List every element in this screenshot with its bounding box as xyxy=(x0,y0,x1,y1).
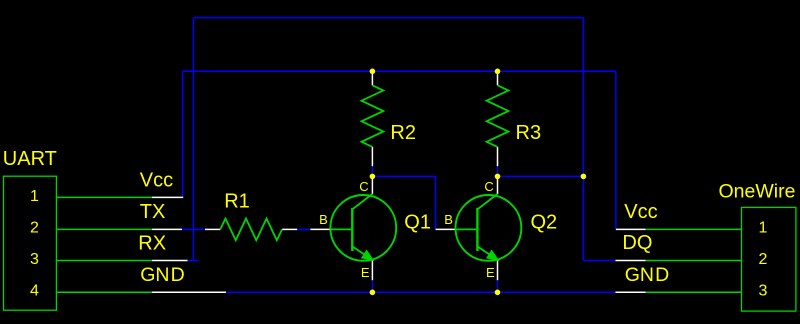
wire: Vcc label segment (white) xyxy=(152,196,183,198)
wire: Q1 collector to Q2 base xyxy=(372,176,435,229)
wire: TX white segment before R1 xyxy=(205,228,220,230)
resistor R1 xyxy=(220,219,282,241)
junction node: R2 top on Vcc rail xyxy=(370,69,376,75)
svg-text:GND: GND xyxy=(140,264,185,286)
svg-text:R3: R3 xyxy=(516,122,542,144)
resistor R3 xyxy=(487,85,509,147)
wire: R2 bottom blue stub xyxy=(371,166,373,176)
wire: Q1 collector pin white xyxy=(371,179,373,194)
wire: R2 bottom lead white xyxy=(371,147,373,166)
wire: RX riser vertical left xyxy=(193,18,195,261)
resistor R2 xyxy=(362,85,384,147)
junction node: Q1 collector / R2 bottom xyxy=(370,174,376,180)
wire: DQ jog to label xyxy=(583,260,615,262)
wire: TX blue segment right xyxy=(297,228,310,230)
svg-text:1: 1 xyxy=(30,188,39,205)
junction node: Q2 emitter on GND rail xyxy=(495,290,501,296)
connector OneWire xyxy=(742,207,796,311)
wire: Q2 emitter pin white xyxy=(497,260,499,280)
svg-text:DQ: DQ xyxy=(622,232,652,254)
transistor Q1 xyxy=(330,194,396,261)
svg-text:B: B xyxy=(444,212,453,227)
svg-text:4: 4 xyxy=(30,282,39,299)
junction node: Q2 collector / R3 bottom xyxy=(495,174,501,180)
svg-text:OneWire: OneWire xyxy=(719,180,796,202)
wire: TX blue segment left xyxy=(182,228,205,230)
junction node: Q1 emitter on GND rail xyxy=(370,290,376,296)
wire: RX blue end segment xyxy=(188,260,199,262)
wire: Vcc left riser xyxy=(182,71,184,197)
wire: Q1 emitter blue stub to GND rail xyxy=(371,280,373,292)
junction node: DQ riser joint xyxy=(581,174,587,180)
svg-text:TX: TX xyxy=(140,201,166,223)
wire: Q2 collector to DQ riser xyxy=(498,175,584,177)
wire: R3 bottom blue stub xyxy=(497,166,499,176)
svg-text:2: 2 xyxy=(759,251,768,268)
wire: UART pin3 green xyxy=(56,260,152,262)
wire: GND bottom rail xyxy=(226,291,616,293)
connector UART xyxy=(4,176,57,310)
svg-text:C: C xyxy=(359,179,368,194)
wire: RX label segment (white) xyxy=(152,260,188,262)
wire: Q1 emitter pin white xyxy=(371,260,373,280)
svg-text:3: 3 xyxy=(759,282,768,299)
svg-text:E: E xyxy=(486,265,495,280)
svg-text:Q1: Q1 xyxy=(404,212,431,234)
wire: R1 right lead white xyxy=(282,228,297,230)
svg-text:Vcc: Vcc xyxy=(624,201,657,223)
wire: OneWire DQ label segment white xyxy=(616,260,646,262)
wire: GND label segment (white) xyxy=(152,291,226,293)
svg-text:R1: R1 xyxy=(224,191,250,213)
wire: Q1 base pin stub white xyxy=(310,228,331,230)
wire: UART pin1 green xyxy=(56,196,152,198)
wire: R3 bottom lead white xyxy=(497,147,499,166)
wire: OneWire pin3 green xyxy=(646,291,742,293)
svg-text:Q2: Q2 xyxy=(531,212,558,234)
transistor Q2 xyxy=(456,194,522,261)
wire: Q2 emitter blue stub to GND rail xyxy=(497,280,499,292)
wire: DQ riser vertical right xyxy=(582,18,584,261)
wire: TX label segment (white) xyxy=(152,228,182,230)
wire: top DQ rail horizontal xyxy=(194,17,584,19)
svg-text:C: C xyxy=(484,179,493,194)
wire: UART pin4 green xyxy=(56,291,152,293)
wire: Vcc right riser xyxy=(615,71,617,229)
wire: OneWire Vcc label segment white xyxy=(616,228,646,230)
svg-text:GND: GND xyxy=(625,264,670,286)
wire: Q2 base stub white xyxy=(436,228,456,230)
svg-text:UART: UART xyxy=(3,148,57,170)
svg-text:2: 2 xyxy=(30,220,39,237)
svg-text:E: E xyxy=(361,265,370,280)
wire: OneWire pin2 green xyxy=(646,260,742,262)
wire: R3 top lead white xyxy=(497,74,499,86)
svg-text:RX: RX xyxy=(138,233,166,255)
wire: OneWire GND label segment white xyxy=(616,291,646,293)
svg-text:Vcc: Vcc xyxy=(140,170,173,192)
svg-text:1: 1 xyxy=(759,220,768,237)
wire: UART pin2 green xyxy=(56,228,152,230)
svg-text:3: 3 xyxy=(30,251,39,268)
wire: Q2 collector pin white xyxy=(497,179,499,194)
wire: R2 top lead white xyxy=(371,74,373,86)
wire: Vcc rail horizontal xyxy=(183,70,616,72)
junction node: R3 top on Vcc rail xyxy=(495,69,501,75)
wire: OneWire pin1 green xyxy=(646,228,742,230)
svg-text:R2: R2 xyxy=(390,122,416,144)
svg-text:B: B xyxy=(319,212,328,227)
